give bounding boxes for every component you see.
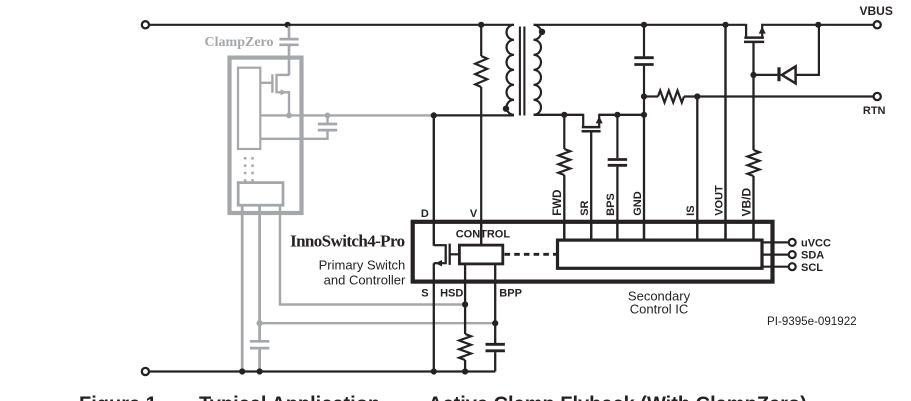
input terminal top-left xyxy=(142,21,149,28)
output terminal RTN xyxy=(874,93,881,100)
wire: V pin into CONTROL xyxy=(480,224,482,245)
node: HSD resistor on bottom rail xyxy=(462,368,468,374)
node: BPP gray-link junction xyxy=(492,320,498,326)
ClampZero driver block (lower rectangle) xyxy=(238,183,283,206)
svg-text:Primary Switch: Primary Switch xyxy=(319,258,406,273)
input terminal bottom-left xyxy=(142,368,149,375)
wire: GND pin drop xyxy=(643,115,645,241)
svg-text:S: S xyxy=(421,288,428,300)
svg-text:InnoSwitch4-Pro: InnoSwitch4-Pro xyxy=(290,231,405,250)
source arrow of Q2 (points right) xyxy=(281,89,287,95)
svg-text:VB/D: VB/D xyxy=(739,187,753,216)
svg-text:Control IC: Control IC xyxy=(630,302,689,317)
pin uVCC wire and terminal xyxy=(762,241,789,243)
transformer T1 primary winding xyxy=(507,25,515,115)
node: GND tee junction xyxy=(641,112,647,118)
node: clamp cap junction on top rail xyxy=(285,22,291,28)
pin stub VOUT into secondary IC xyxy=(724,224,726,240)
transistor Q3 (synchronous rectifier MOSFET, in-line) xyxy=(582,114,601,241)
wire: ClampZero pin 1 down to bottom rail (gray) xyxy=(241,205,244,370)
wire: primary return to D node xyxy=(434,114,514,116)
op-amp U1: InnoSwitch4-Pro IC outline xyxy=(413,222,773,282)
node: RTN junction at output cap xyxy=(641,93,647,99)
ClampZero controller block (tall rectangle) xyxy=(238,68,260,149)
svg-text:Typical Application: Typical Application xyxy=(199,393,380,401)
svg-text:PI-9395e-091922: PI-9395e-091922 xyxy=(767,315,857,328)
svg-text:RTN: RTN xyxy=(863,105,886,117)
wire: D pin drop xyxy=(433,115,435,245)
node: ClampZero pin2 on bottom rail xyxy=(257,368,263,374)
node: bias resistor junction on top rail xyxy=(478,22,484,28)
svg-text:CONTROL: CONTROL xyxy=(456,229,511,241)
pin stub IS into secondary IC xyxy=(696,224,698,240)
svg-text:FWD: FWD xyxy=(552,190,564,216)
pin stub SR into secondary IC xyxy=(590,224,592,240)
wire: ClampZero to BPP pin (gray) xyxy=(260,322,494,324)
transformer T1 secondary winding xyxy=(534,25,542,115)
svg-text:GND: GND xyxy=(632,191,644,216)
svg-text:D: D xyxy=(421,208,429,220)
node: BPP link junction (gray) xyxy=(257,320,263,326)
wire: VOUT pin drop xyxy=(724,25,726,241)
svg-text:BPS: BPS xyxy=(605,193,617,216)
transformer T1 core xyxy=(519,27,521,116)
wire: ClampZero output line to D node (gray) xyxy=(261,114,433,116)
polarity dot primary xyxy=(503,106,509,112)
wire: FWD pin drop xyxy=(563,175,565,241)
pin stub VB/D into secondary IC xyxy=(752,224,754,240)
node: BPS junction xyxy=(614,112,620,118)
capacitor C1 (ClampZero top capacitor, gray) xyxy=(279,26,298,76)
node: D junction xyxy=(431,112,437,118)
capacitor C4 (BPS bypass cap) xyxy=(608,115,627,241)
svg-text:SR: SR xyxy=(579,200,591,215)
op-amp U2: Secondary Control IC block xyxy=(558,240,763,268)
svg-text:VBUS: VBUS xyxy=(860,4,893,18)
wire: HSD pin drop from CONTROL xyxy=(464,264,466,334)
source arrow of Q3 (points up) xyxy=(596,116,603,123)
output terminal VBUS xyxy=(874,21,881,28)
pin stub GND into secondary IC xyxy=(643,224,645,240)
pin SCL wire and terminal xyxy=(762,266,789,268)
wire: ClampZero pin 3 to HSD pin (gray) xyxy=(280,205,464,304)
capacitor C5 (output capacitor) xyxy=(634,25,653,115)
capacitor C6 (BPP capacitor) xyxy=(486,344,505,371)
wire: bottom return rail xyxy=(149,370,495,372)
node: S pin on bottom rail xyxy=(431,368,437,374)
wire: top rail from input to transformer primary xyxy=(149,24,514,26)
node: gate/diode junction xyxy=(750,72,756,78)
node: diode top junction xyxy=(815,22,821,28)
svg-text:BPP: BPP xyxy=(499,288,522,300)
resistor R5 (HSD resistor) xyxy=(459,334,471,360)
svg-text:HSD: HSD xyxy=(440,288,463,300)
svg-text:SDA: SDA xyxy=(801,250,824,262)
svg-text:Active Clamp Flyback (With Cla: Active Clamp Flyback (With ClampZero). xyxy=(428,393,812,401)
wire: secondary return continues to GND node xyxy=(599,114,644,116)
wire: VBUS rail after switch xyxy=(762,24,873,26)
resistor R3 (current sense resistor on RTN line) xyxy=(645,95,658,97)
transistor Q4 (VBUS disconnect MOSFET, in-line) xyxy=(744,24,764,75)
resistor R2 (FWD resistor) xyxy=(563,115,565,149)
wire: secondary top rail to VBUS switch xyxy=(534,24,746,26)
pin stub BPS into secondary IC xyxy=(616,224,618,240)
svg-text:Figure 1.: Figure 1. xyxy=(79,393,162,401)
wire: secondary return line xyxy=(534,114,584,116)
wire: RTN line to terminal xyxy=(684,95,873,97)
pin SDA wire and terminal xyxy=(762,254,789,256)
capacitor C3 (ClampZero bypass cap, gray) xyxy=(250,341,269,370)
wire: BPP pin drop from CONTROL xyxy=(494,264,496,343)
node: IS junction xyxy=(694,93,700,99)
pin stub FWD into secondary IC xyxy=(563,224,565,240)
source arrow of Q1 (points left) xyxy=(435,260,442,267)
node: ClampZero pin1 on bottom rail xyxy=(239,368,245,374)
node: HSD gray-link junction xyxy=(462,301,468,307)
svg-text:ClampZero: ClampZero xyxy=(205,35,274,50)
polarity dot secondary xyxy=(539,29,545,35)
wire: ClampZero pin 2 down with bypass cap (gray) xyxy=(258,205,261,340)
svg-text:SCL: SCL xyxy=(801,262,823,274)
svg-text:uVCC: uVCC xyxy=(801,238,831,250)
svg-text:and Controller: and Controller xyxy=(324,272,406,287)
wire: VB/D pin drop with resistor R4 xyxy=(752,75,754,150)
source arrow of Q4 (points up) xyxy=(759,26,766,33)
node: output cap junction top xyxy=(641,22,647,28)
CONTROL block xyxy=(459,245,502,264)
node: clamp cap C2 junction (gray) xyxy=(325,113,331,119)
dotted connection lines inside ClampZero xyxy=(244,157,254,182)
node: VOUT junction top xyxy=(722,22,728,28)
node: FWD junction xyxy=(561,112,567,118)
svg-text:-: - xyxy=(388,393,395,401)
node: Q2 source junction (gray) xyxy=(286,113,292,119)
diode D1 (gate diode) xyxy=(754,74,778,76)
resistor R4 (VB/D resistor) xyxy=(748,150,760,176)
svg-text:IS: IS xyxy=(685,205,697,215)
svg-text:VOUT: VOUT xyxy=(713,185,725,216)
resistor R1 (bias resistor on V pin line) xyxy=(475,56,487,87)
svg-text:V: V xyxy=(470,208,478,220)
dashed link CONTROL to secondary IC xyxy=(505,253,558,256)
capacitor C2 (ClampZero clamp capacitor, gray) xyxy=(261,115,338,138)
wire: V pin line (top rail to V pin, crosses primary return) xyxy=(480,25,482,56)
wire: IS pin drop xyxy=(696,97,698,241)
transistor Q1 (primary power MOSFET inside IC) xyxy=(434,244,458,372)
ClampZero outer box xyxy=(230,58,302,213)
transistor Q2 (ClampZero internal MOSFET, gray) xyxy=(261,74,289,116)
